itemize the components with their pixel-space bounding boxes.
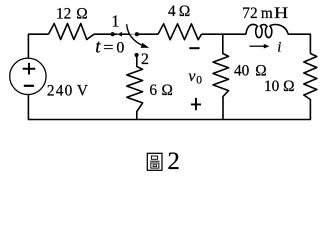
wire coil to top-right corner, right rail down to 10ohm [288, 34, 310, 53]
node 2 top dot [135, 32, 139, 36]
current i arrow line [250, 45, 266, 47]
svg-text:10Ω: 10Ω [264, 78, 294, 95]
svg-text:v: v [188, 68, 196, 85]
voltage source circle 240V [10, 58, 46, 94]
svg-text:6Ω: 6Ω [149, 82, 172, 99]
svg-text:40Ω: 40Ω [234, 63, 267, 80]
source plus sign [23, 63, 36, 75]
svg-text:240V: 240V [47, 83, 88, 100]
svg-text:72mH: 72mH [242, 5, 288, 22]
resistor R1 12ohm [49, 24, 95, 40]
wire 12ohm to node1 [94, 33, 118, 35]
wire 4ohm to coil [202, 33, 247, 35]
svg-text:12Ω: 12Ω [56, 6, 88, 23]
svg-text:2: 2 [141, 51, 149, 68]
switch wire arrowhead pointing left [117, 32, 122, 37]
switch arc arrowhead [141, 43, 149, 48]
caption glyph tu (figure) drawn as strokes [147, 153, 162, 170]
current i arrowhead [264, 44, 270, 49]
40ohm branch: stub, resistor R5 40ohm, stub [213, 34, 229, 119]
switch blade arc [127, 24, 144, 46]
v0 minus sign [189, 47, 199, 49]
wire 10ohm to bottom wire and bottom rail [28, 95, 310, 120]
inductor L1 72mH [246, 24, 288, 37]
svg-text:1: 1 [111, 11, 119, 30]
wire arrowbase to arc crossing [122, 33, 130, 35]
resistor R4 10ohm [304, 54, 317, 102]
svg-text:i: i [277, 39, 281, 55]
node2 stub and resistor R3 6ohm [127, 57, 143, 120]
wire gray segment to dot2top [130, 33, 136, 35]
wire top-left from source to 12-ohm [28, 34, 48, 58]
source minus sign [24, 85, 34, 87]
node 1 dot [111, 32, 115, 36]
svg-text:4Ω: 4Ω [168, 3, 190, 20]
node 2 lower dot [135, 53, 139, 57]
svg-text:t=0: t=0 [95, 37, 124, 58]
svg-text:2: 2 [167, 148, 180, 175]
svg-text:0: 0 [196, 75, 202, 87]
resistor R2 4ohm [158, 24, 202, 40]
v0 plus sign [191, 98, 201, 110]
wire dot2top to 4-ohm [135, 33, 158, 35]
